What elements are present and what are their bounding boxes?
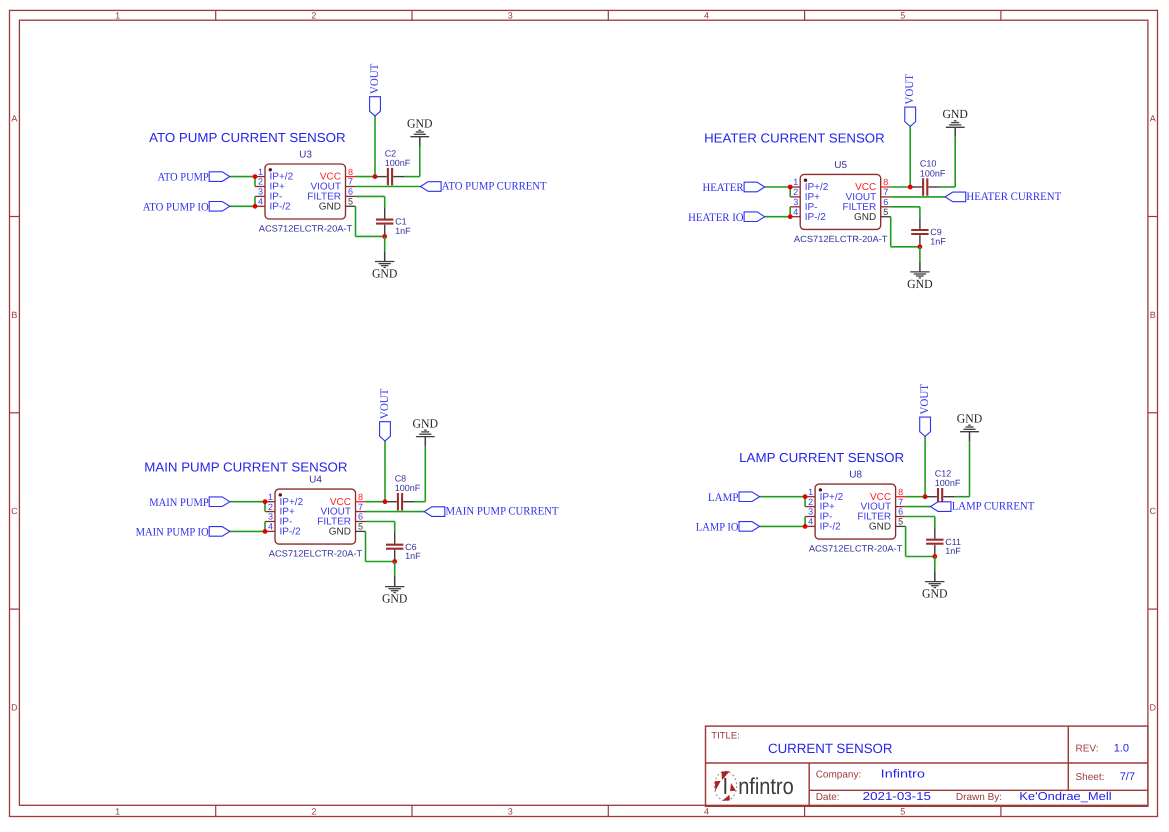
net label HEATER CURRENT <box>945 191 1061 203</box>
wire MAIN PUMP IO flag to pin4 <box>230 530 265 532</box>
svg-text:GND: GND <box>854 212 876 223</box>
title block Sheet field <box>1076 771 1135 783</box>
wire pin8 VCC to junction <box>906 496 926 498</box>
pin 8 VCC of U3 <box>320 167 356 183</box>
pin 8 VCC of U5 <box>855 177 891 193</box>
IC U8 ACS712 body <box>815 484 896 539</box>
wire pin6 FILTER to C6 <box>366 521 395 523</box>
wire C2 to top ground <box>405 176 420 178</box>
IC U5 ACS712 body <box>800 174 881 229</box>
svg-text:HEATER IO: HEATER IO <box>688 212 744 224</box>
svg-text:C8: C8 <box>395 473 407 483</box>
svg-text:2: 2 <box>311 10 316 20</box>
svg-text:100nF: 100nF <box>395 483 421 493</box>
svg-text:5: 5 <box>898 517 903 527</box>
svg-text:HEATER CURRENT: HEATER CURRENT <box>966 191 1061 203</box>
wire pin3 to pin4 jog <box>264 522 266 532</box>
svg-text:IP-/2: IP-/2 <box>270 201 292 212</box>
wire pin7 VIOUT to LAMP CURRENT flag <box>906 506 931 508</box>
net label MAIN PUMP CURRENT <box>424 506 558 518</box>
wire pin5 GND down and right <box>890 217 892 247</box>
wire pin8 VCC to junction <box>891 186 911 188</box>
pin 3 IP- of U3 <box>255 187 282 203</box>
svg-text:100nF: 100nF <box>935 478 961 488</box>
svg-text:C: C <box>1150 506 1157 516</box>
svg-text:GND: GND <box>413 417 439 431</box>
pin 4 IP-/2 of U5 <box>790 207 826 223</box>
svg-text:C: C <box>11 506 18 516</box>
svg-text:GND: GND <box>407 117 433 131</box>
svg-text:7: 7 <box>348 177 353 187</box>
title block Drawn By field <box>956 791 1112 803</box>
wire pin1 to pin2 jog <box>804 497 806 507</box>
wire junction to bottom ground <box>934 557 936 572</box>
svg-text:8: 8 <box>348 167 353 177</box>
junction VCC node <box>923 494 928 499</box>
svg-text:7: 7 <box>358 502 363 512</box>
power flag VOUT at U8 <box>919 384 931 436</box>
svg-text:A: A <box>1150 114 1156 124</box>
net label LAMP IO <box>696 522 760 534</box>
svg-text:ACS712ELCTR-20A-T: ACS712ELCTR-20A-T <box>809 544 903 554</box>
title block Date field <box>816 791 931 803</box>
svg-text:U4: U4 <box>309 475 322 486</box>
junction at pin1 <box>253 174 258 179</box>
wire pin1 to pin2 jog <box>789 187 791 197</box>
junction at pin1 <box>803 494 808 499</box>
svg-text:7: 7 <box>883 187 888 197</box>
svg-text:Date:: Date: <box>816 792 840 803</box>
svg-text:C12: C12 <box>935 468 952 478</box>
power flag VOUT at U4 <box>379 389 391 441</box>
svg-text:IP-/2: IP-/2 <box>820 522 842 533</box>
IC U3 pin-1 mark <box>269 168 272 171</box>
pin 4 IP-/2 of U3 <box>255 197 291 213</box>
svg-text:2: 2 <box>808 497 813 507</box>
svg-text:4: 4 <box>268 522 273 532</box>
wire ATO PUMP IO flag to pin4 <box>230 205 255 207</box>
pin 3 IP- of U4 <box>265 512 292 528</box>
svg-text:5: 5 <box>900 807 905 817</box>
svg-text:5: 5 <box>883 207 888 217</box>
wire C8 to top ground <box>415 501 426 503</box>
net label LAMP <box>708 492 760 504</box>
IC U4 ACS712 body <box>275 489 356 544</box>
capacitor C12 100nF <box>927 468 961 505</box>
svg-text:3: 3 <box>258 187 263 197</box>
ground bottom of U5 <box>907 262 933 291</box>
wire pin3 to pin4 jog <box>254 196 256 206</box>
wire pin7 VIOUT to ATO PUMP CURRENT flag <box>356 186 421 188</box>
ground bottom of U4 <box>382 577 408 606</box>
wire pin1 to pin2 jog <box>264 502 266 512</box>
IC U3 ACS712 body <box>265 164 346 219</box>
svg-text:Infintro: Infintro <box>881 769 925 781</box>
junction at pin4 <box>253 204 258 209</box>
svg-text:VOUT: VOUT <box>904 74 916 105</box>
junction VCC node <box>383 499 388 504</box>
net label ATO PUMP <box>158 172 230 184</box>
svg-text:4: 4 <box>704 10 709 20</box>
svg-text:1: 1 <box>115 807 120 817</box>
svg-text:5: 5 <box>900 10 905 20</box>
pin 5 GND of U8 <box>869 517 906 533</box>
IC U8 pin-1 mark <box>819 488 822 491</box>
svg-text:Ke'Ondrae_Mell: Ke'Ondrae_Mell <box>1019 791 1111 803</box>
svg-text:1nF: 1nF <box>930 236 946 246</box>
svg-text:1: 1 <box>258 167 263 177</box>
wire pin7 VIOUT to HEATER CURRENT flag <box>891 196 945 198</box>
pin 1 IP+/2 of U3 <box>255 167 294 183</box>
svg-text:Sheet:: Sheet: <box>1076 772 1105 783</box>
svg-text:2: 2 <box>793 187 798 197</box>
wire VOUT flag down to VCC node <box>909 126 911 187</box>
wire junction to bottom ground <box>384 236 386 251</box>
wire pin7 VIOUT to MAIN PUMP CURRENT flag <box>366 511 425 513</box>
capacitor C9 1nF <box>911 218 946 246</box>
title block Company field <box>816 769 925 781</box>
wire pin5 GND down and right <box>365 531 367 561</box>
pin 6 FILTER of U5 <box>842 197 890 213</box>
wire pin5 GND down and right <box>905 526 907 556</box>
wire MAIN PUMP flag to pin1 <box>230 501 265 503</box>
junction at pin4 <box>788 214 793 219</box>
svg-text:8: 8 <box>883 177 888 187</box>
svg-text:5: 5 <box>358 522 363 532</box>
svg-text:Drawn By:: Drawn By: <box>956 792 1002 803</box>
net label HEATER IO <box>688 212 765 224</box>
wire pin1 to pin2 jog <box>254 177 256 187</box>
svg-text:1: 1 <box>268 492 273 502</box>
svg-text:GND: GND <box>319 201 341 212</box>
svg-text:4: 4 <box>258 197 263 207</box>
pin 1 IP+/2 of U5 <box>790 177 829 193</box>
svg-text:6: 6 <box>358 512 363 522</box>
wire C10 to top ground <box>940 186 955 188</box>
wire VOUT flag down to VCC node <box>384 441 386 502</box>
svg-text:ATO PUMP IO: ATO PUMP IO <box>143 201 209 213</box>
junction below C1 <box>382 234 387 239</box>
wire HEATER IO flag to pin4 <box>765 216 791 218</box>
pin 8 VCC of U8 <box>870 487 906 503</box>
svg-text:1nF: 1nF <box>405 551 421 561</box>
svg-text:3: 3 <box>508 807 513 817</box>
svg-text:nfintro: nfintro <box>738 773 794 799</box>
svg-text:C2: C2 <box>385 148 397 158</box>
svg-text:MAIN PUMP CURRENT: MAIN PUMP CURRENT <box>446 506 559 518</box>
svg-text:1: 1 <box>793 177 798 187</box>
svg-text:D: D <box>11 703 18 713</box>
capacitor C2 100nF <box>377 148 411 185</box>
IC U4 pin-1 mark <box>279 493 282 496</box>
svg-text:2: 2 <box>268 502 273 512</box>
wire junction to bottom ground <box>919 247 921 262</box>
svg-text:ATO PUMP CURRENT SENSOR: ATO PUMP CURRENT SENSOR <box>149 130 346 145</box>
svg-text:ACS712ELCTR-20A-T: ACS712ELCTR-20A-T <box>259 223 353 233</box>
svg-text:7: 7 <box>898 497 903 507</box>
pin 3 IP- of U8 <box>805 507 832 523</box>
svg-text:4: 4 <box>793 207 798 217</box>
svg-text:ATO PUMP: ATO PUMP <box>158 172 209 184</box>
svg-text:C10: C10 <box>920 159 937 169</box>
pin 7 VIOUT of U4 <box>320 502 365 518</box>
capacitor C10 100nF <box>912 159 946 196</box>
svg-text:VOUT: VOUT <box>919 384 931 415</box>
ground bottom of U3 <box>372 251 398 280</box>
svg-text:B: B <box>11 310 17 320</box>
svg-text:GND: GND <box>372 267 398 281</box>
svg-text:3: 3 <box>808 507 813 517</box>
junction at pin4 <box>803 524 808 529</box>
capacitor C11 1nF <box>926 528 961 556</box>
ground top near C2 <box>407 117 433 146</box>
junction below C11 <box>932 554 937 559</box>
wire pin3 to pin4 jog <box>804 517 806 527</box>
title block <box>706 726 1148 806</box>
svg-text:LAMP CURRENT: LAMP CURRENT <box>952 501 1035 513</box>
svg-text:1.0: 1.0 <box>1114 742 1129 754</box>
svg-text:1: 1 <box>115 10 120 20</box>
junction at pin1 <box>788 185 793 190</box>
Infintro logo aperture icon <box>714 771 736 801</box>
pin 5 GND of U5 <box>854 207 891 223</box>
wire pin5 GND down and right <box>355 206 357 236</box>
junction at pin4 <box>263 529 268 534</box>
pin 2 IP+ of U4 <box>265 502 295 518</box>
junction below C6 <box>392 559 397 564</box>
pin 2 IP+ of U5 <box>790 187 820 203</box>
junction VCC node <box>373 174 378 179</box>
junction below C9 <box>918 244 923 249</box>
wire pin6 FILTER to C9 <box>891 206 920 208</box>
svg-text:HEATER CURRENT SENSOR: HEATER CURRENT SENSOR <box>704 130 885 145</box>
svg-text:MAIN PUMP: MAIN PUMP <box>149 497 208 509</box>
net label ATO PUMP CURRENT <box>421 181 547 193</box>
ground bottom of U8 <box>922 572 948 601</box>
svg-text:HEATER: HEATER <box>703 182 744 194</box>
svg-text:7/7: 7/7 <box>1120 771 1135 783</box>
wire pin6 FILTER to C11 <box>906 516 935 518</box>
svg-text:B: B <box>1150 310 1156 320</box>
svg-text:A: A <box>11 114 17 124</box>
pin 8 VCC of U4 <box>330 492 366 508</box>
pin 4 IP-/2 of U4 <box>265 522 301 538</box>
ground top near C8 <box>413 417 439 446</box>
capacitor C6 1nF <box>386 533 421 561</box>
svg-text:CURRENT SENSOR: CURRENT SENSOR <box>768 741 893 756</box>
pin 1 IP+/2 of U4 <box>265 492 304 508</box>
pin 7 VIOUT of U3 <box>310 177 355 193</box>
svg-text:LAMP CURRENT SENSOR: LAMP CURRENT SENSOR <box>739 450 904 465</box>
svg-text:6: 6 <box>883 197 888 207</box>
svg-text:MAIN PUMP CURRENT SENSOR: MAIN PUMP CURRENT SENSOR <box>144 460 347 475</box>
svg-text:U5: U5 <box>834 160 847 171</box>
net label ATO PUMP IO <box>143 201 230 213</box>
svg-text:6: 6 <box>348 187 353 197</box>
wire pin6 FILTER to C1 <box>356 195 385 197</box>
svg-text:100nF: 100nF <box>920 168 946 178</box>
svg-text:1nF: 1nF <box>945 546 961 556</box>
pin 3 IP- of U5 <box>790 197 817 213</box>
svg-text:3: 3 <box>268 512 273 522</box>
svg-text:5: 5 <box>348 197 353 207</box>
svg-text:8: 8 <box>898 487 903 497</box>
svg-text:U8: U8 <box>849 470 862 481</box>
svg-text:1nF: 1nF <box>395 226 411 236</box>
pin 7 VIOUT of U8 <box>861 497 906 513</box>
title block REV field <box>1076 742 1129 754</box>
svg-text:2: 2 <box>311 807 316 817</box>
capacitor C1 1nF <box>376 208 411 236</box>
wire LAMP IO flag to pin4 <box>760 525 806 527</box>
svg-text:IP-/2: IP-/2 <box>805 212 827 223</box>
svg-text:2021-03-15: 2021-03-15 <box>863 791 931 803</box>
svg-text:VOUT: VOUT <box>379 389 391 420</box>
svg-text:GND: GND <box>907 277 933 291</box>
wire LAMP flag to pin1 <box>760 496 806 498</box>
wire pin8 VCC to junction <box>356 176 376 178</box>
svg-text:3: 3 <box>793 197 798 207</box>
svg-text:1: 1 <box>808 487 813 497</box>
svg-text:GND: GND <box>957 412 983 426</box>
pin 5 GND of U3 <box>319 197 356 213</box>
pin 2 IP+ of U8 <box>805 497 835 513</box>
wire pin3 to pin4 jog <box>789 207 791 217</box>
power flag VOUT at U3 <box>369 64 381 116</box>
svg-text:IP-/2: IP-/2 <box>280 527 302 538</box>
wire HEATER flag to pin1 <box>765 186 791 188</box>
net label LAMP CURRENT <box>930 501 1034 513</box>
net label MAIN PUMP <box>149 497 230 509</box>
svg-text:4: 4 <box>808 517 813 527</box>
svg-text:GND: GND <box>922 587 948 601</box>
wire pin8 VCC to junction <box>366 501 386 503</box>
pin 4 IP-/2 of U8 <box>805 517 841 533</box>
pin 6 FILTER of U8 <box>857 507 905 523</box>
svg-text:LAMP: LAMP <box>708 492 739 504</box>
pin 6 FILTER of U4 <box>317 512 365 528</box>
svg-text:LAMP IO: LAMP IO <box>696 522 739 534</box>
svg-text:D: D <box>1150 703 1157 713</box>
pin 2 IP+ of U3 <box>255 177 285 193</box>
svg-text:U3: U3 <box>299 150 312 161</box>
svg-text:4: 4 <box>704 807 709 817</box>
svg-text:2: 2 <box>258 177 263 187</box>
svg-text:ATO PUMP CURRENT: ATO PUMP CURRENT <box>442 181 547 193</box>
svg-text:ACS712ELCTR-20A-T: ACS712ELCTR-20A-T <box>794 234 888 244</box>
wire C12 to top ground <box>955 496 970 498</box>
svg-text:GND: GND <box>869 522 891 533</box>
wire VOUT flag down to VCC node <box>924 436 926 496</box>
svg-text:REV:: REV: <box>1076 743 1099 754</box>
svg-text:Company:: Company: <box>816 770 862 781</box>
capacitor C8 100nF <box>387 473 421 510</box>
ground top near C12 <box>957 412 983 441</box>
svg-text:100nF: 100nF <box>385 158 411 168</box>
svg-text:GND: GND <box>329 527 351 538</box>
wire ATO PUMP flag to pin1 <box>230 176 255 178</box>
pin 1 IP+/2 of U8 <box>805 487 844 503</box>
svg-text:8: 8 <box>358 492 363 502</box>
junction VCC node <box>908 185 913 190</box>
svg-text:GND: GND <box>942 107 968 121</box>
IC U5 pin-1 mark <box>804 179 807 182</box>
svg-text:VOUT: VOUT <box>369 64 381 95</box>
pin 5 GND of U4 <box>329 522 366 538</box>
pin 7 VIOUT of U5 <box>846 187 891 203</box>
wire junction to bottom ground <box>394 562 396 577</box>
power flag VOUT at U5 <box>904 74 916 126</box>
junction at pin1 <box>263 499 268 504</box>
svg-text:TITLE:: TITLE: <box>711 730 740 741</box>
net label HEATER <box>703 182 765 194</box>
pin 6 FILTER of U3 <box>307 187 355 203</box>
svg-text:ACS712ELCTR-20A-T: ACS712ELCTR-20A-T <box>269 549 363 559</box>
wire VOUT flag down to VCC node <box>374 116 376 177</box>
net label MAIN PUMP IO <box>136 527 230 539</box>
ground top near C10 <box>942 107 968 136</box>
svg-text:3: 3 <box>508 10 513 20</box>
svg-text:6: 6 <box>898 507 903 517</box>
svg-text:GND: GND <box>382 592 408 606</box>
svg-text:MAIN PUMP IO: MAIN PUMP IO <box>136 527 209 539</box>
